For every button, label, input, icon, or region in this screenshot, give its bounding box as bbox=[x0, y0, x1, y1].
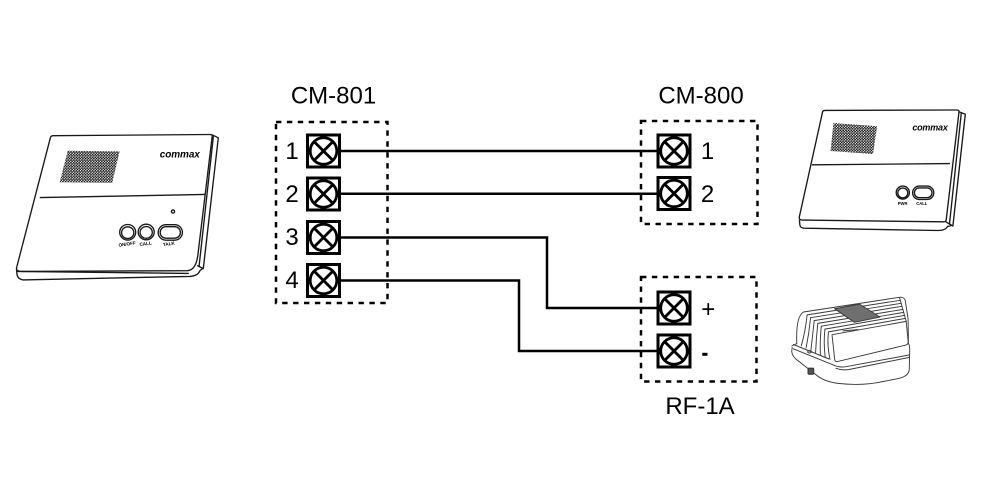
svg-text:commax: commax bbox=[912, 122, 949, 132]
svg-text:CM-800: CM-800 bbox=[658, 83, 743, 110]
svg-text:CM-801: CM-801 bbox=[291, 83, 376, 110]
svg-text:+: + bbox=[701, 296, 715, 323]
svg-text:1: 1 bbox=[285, 138, 298, 165]
svg-text:2: 2 bbox=[701, 181, 714, 208]
svg-text:1: 1 bbox=[701, 138, 714, 165]
svg-text:CALL: CALL bbox=[916, 201, 928, 206]
svg-text:2: 2 bbox=[285, 181, 298, 208]
svg-text:RF-1A: RF-1A bbox=[665, 393, 734, 420]
svg-text:commax: commax bbox=[160, 149, 201, 160]
svg-text:PWR: PWR bbox=[898, 201, 908, 206]
svg-text:4: 4 bbox=[285, 267, 298, 294]
svg-text:3: 3 bbox=[285, 224, 298, 251]
